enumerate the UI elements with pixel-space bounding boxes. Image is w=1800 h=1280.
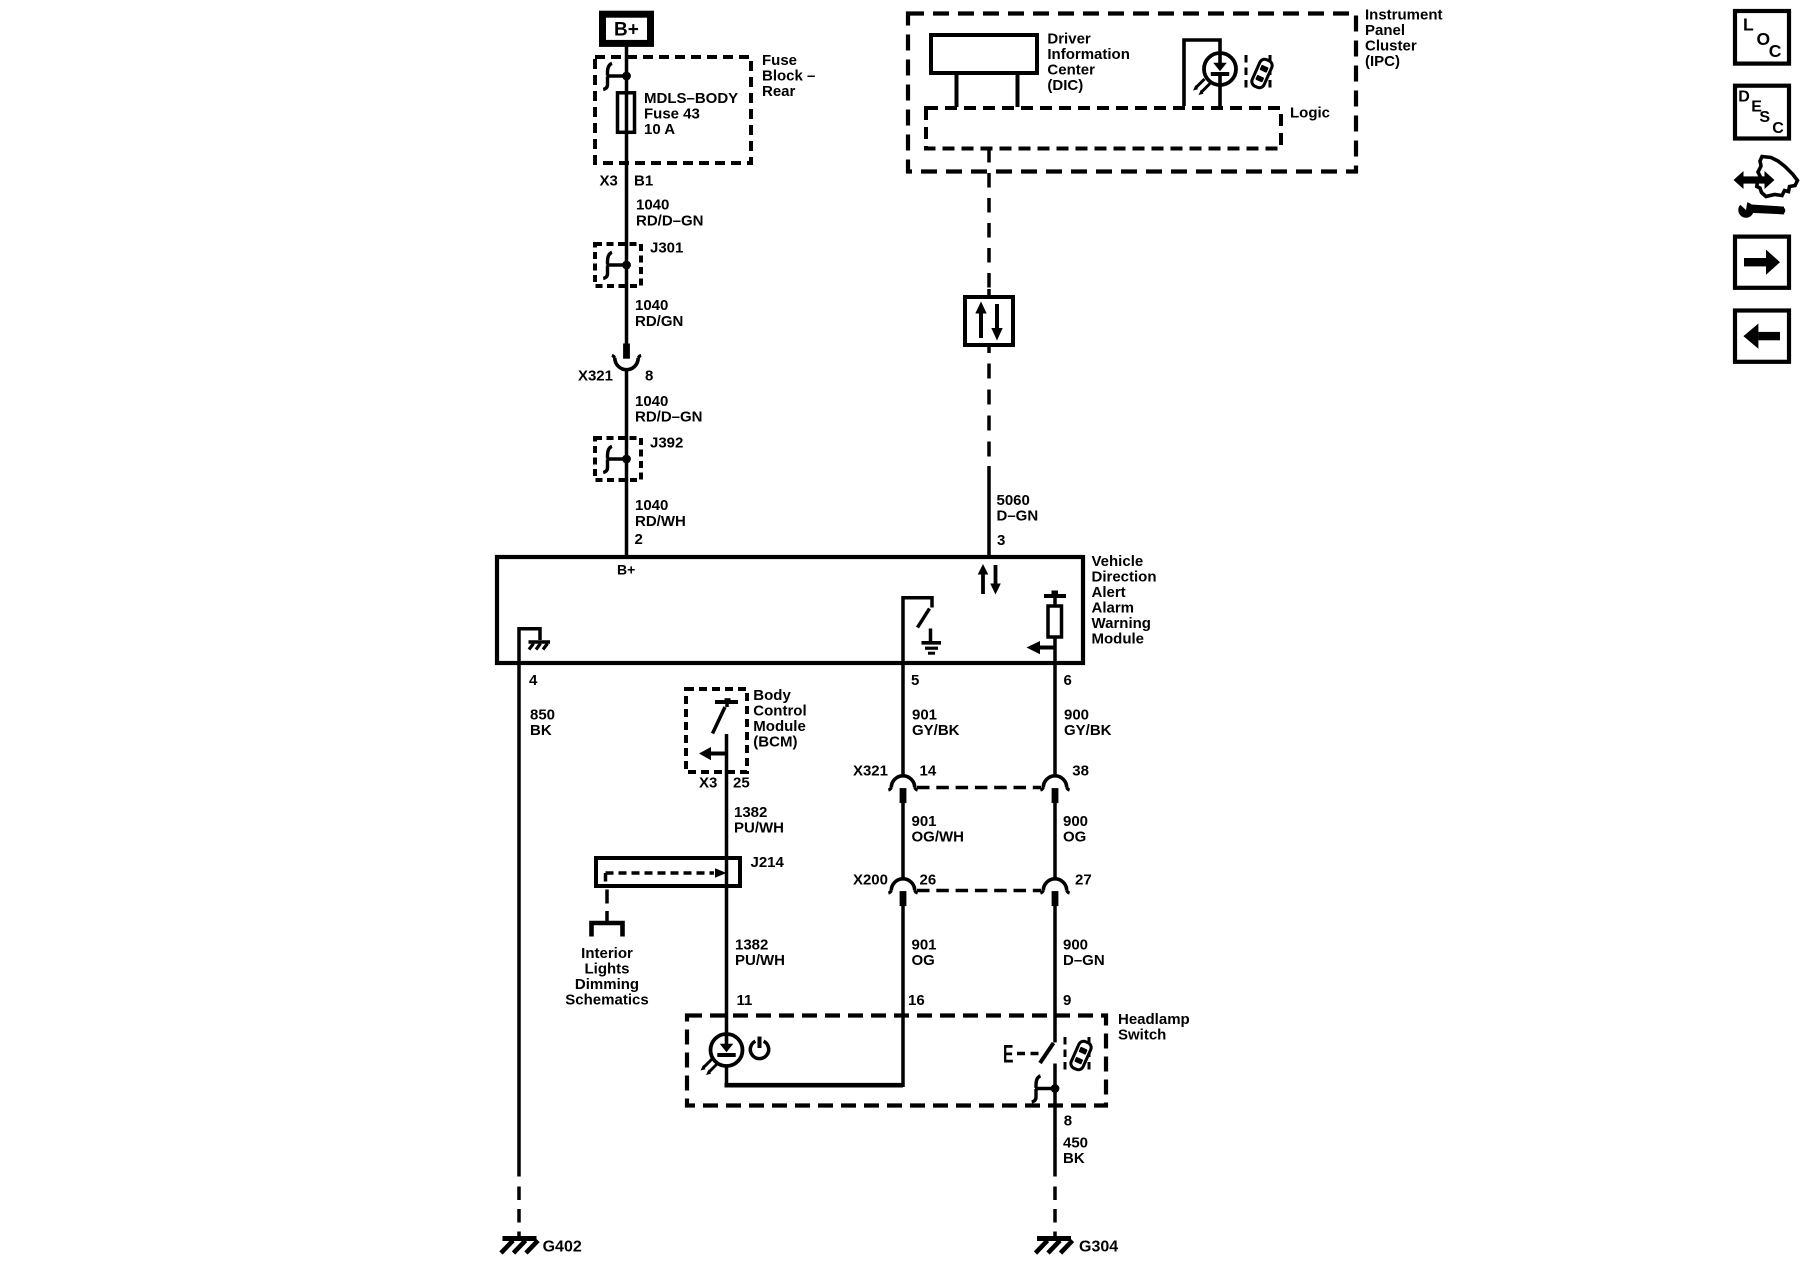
- svg-text:RD/D–GN: RD/D–GN: [635, 409, 703, 426]
- svg-text:X200: X200: [853, 872, 888, 889]
- svg-text:38: 38: [1072, 763, 1089, 780]
- svg-text:Switch: Switch: [1118, 1026, 1166, 1043]
- svg-text:1382: 1382: [734, 804, 767, 821]
- svg-text:C: C: [1772, 120, 1784, 137]
- svg-text:25: 25: [733, 775, 750, 792]
- svg-text:900: 900: [1063, 937, 1088, 954]
- svg-text:GY/BK: GY/BK: [1064, 722, 1112, 739]
- svg-text:J392: J392: [650, 435, 683, 452]
- svg-text:Module: Module: [753, 718, 806, 735]
- svg-text:OG: OG: [912, 952, 935, 969]
- svg-text:X321: X321: [578, 368, 613, 385]
- svg-text:C: C: [1769, 41, 1782, 61]
- svg-text:900: 900: [1064, 707, 1089, 724]
- svg-text:Rear: Rear: [762, 83, 796, 100]
- svg-text:MDLS–BODY: MDLS–BODY: [644, 90, 738, 107]
- svg-text:BK: BK: [1063, 1150, 1085, 1167]
- svg-text:16: 16: [908, 992, 925, 1009]
- svg-text:Interior: Interior: [581, 945, 633, 962]
- svg-text:Lights: Lights: [585, 960, 630, 977]
- svg-text:RD/WH: RD/WH: [635, 513, 686, 530]
- svg-text:E: E: [1003, 1041, 1014, 1069]
- svg-text:Instrument: Instrument: [1365, 7, 1443, 24]
- svg-text:RD/D–GN: RD/D–GN: [636, 212, 704, 229]
- svg-text:Control: Control: [753, 703, 806, 720]
- svg-text:850: 850: [530, 707, 555, 724]
- svg-text:BK: BK: [530, 722, 552, 739]
- svg-text:Vehicle: Vehicle: [1092, 553, 1144, 570]
- svg-text:Dimming: Dimming: [575, 976, 639, 993]
- svg-text:Panel: Panel: [1365, 22, 1405, 39]
- svg-text:Information: Information: [1047, 46, 1130, 63]
- svg-text:GY/BK: GY/BK: [912, 722, 960, 739]
- svg-text:Alert: Alert: [1092, 584, 1126, 601]
- svg-text:G304: G304: [1079, 1239, 1118, 1256]
- svg-text:9: 9: [1063, 992, 1071, 1009]
- svg-text:Fuse 43: Fuse 43: [644, 106, 700, 123]
- svg-text:27: 27: [1075, 872, 1092, 889]
- svg-text:OG: OG: [1063, 829, 1086, 846]
- svg-text:26: 26: [920, 872, 937, 889]
- svg-text:14: 14: [920, 763, 937, 780]
- svg-text:X321: X321: [853, 763, 888, 780]
- svg-text:10 A: 10 A: [644, 121, 675, 138]
- svg-text:D–GN: D–GN: [997, 507, 1039, 524]
- svg-text:Driver: Driver: [1047, 31, 1091, 48]
- svg-text:8: 8: [645, 368, 653, 385]
- svg-text:Headlamp: Headlamp: [1118, 1011, 1190, 1028]
- svg-text:Cluster: Cluster: [1365, 38, 1417, 55]
- svg-text:RD/GN: RD/GN: [635, 313, 683, 330]
- svg-text:Body: Body: [753, 687, 791, 704]
- svg-text:2: 2: [635, 531, 643, 548]
- svg-text:Block –: Block –: [762, 67, 815, 84]
- svg-text:6: 6: [1064, 672, 1072, 689]
- svg-text:3: 3: [997, 532, 1005, 549]
- svg-text:1040: 1040: [636, 197, 669, 214]
- svg-text:5060: 5060: [997, 492, 1030, 509]
- svg-text:J301: J301: [650, 240, 683, 257]
- svg-text:Logic: Logic: [1290, 105, 1330, 122]
- svg-text:D: D: [1738, 88, 1750, 105]
- svg-text:1040: 1040: [635, 497, 668, 514]
- svg-text:PU/WH: PU/WH: [734, 820, 784, 837]
- svg-text:450: 450: [1063, 1135, 1088, 1152]
- svg-text:D–GN: D–GN: [1063, 952, 1105, 969]
- svg-text:Warning: Warning: [1092, 615, 1151, 632]
- svg-text:Schematics: Schematics: [565, 991, 648, 1008]
- svg-text:X3: X3: [699, 775, 717, 792]
- svg-text:901: 901: [912, 707, 937, 724]
- svg-text:B+: B+: [614, 20, 639, 41]
- svg-text:(BCM): (BCM): [753, 734, 797, 751]
- svg-text:8: 8: [1064, 1113, 1072, 1130]
- svg-text:B1: B1: [634, 173, 653, 190]
- svg-text:Direction: Direction: [1092, 569, 1157, 586]
- svg-text:Module: Module: [1092, 631, 1145, 648]
- svg-text:11: 11: [737, 992, 753, 1009]
- svg-text:Alarm: Alarm: [1092, 600, 1135, 617]
- svg-text:1382: 1382: [735, 937, 768, 954]
- svg-text:Center: Center: [1047, 62, 1095, 79]
- svg-text:S: S: [1759, 109, 1770, 126]
- svg-text:901: 901: [912, 813, 937, 830]
- svg-text:B+: B+: [617, 562, 635, 578]
- svg-text:4: 4: [529, 672, 538, 689]
- svg-text:Fuse: Fuse: [762, 52, 797, 69]
- svg-text:X3: X3: [600, 173, 618, 190]
- svg-text:900: 900: [1063, 813, 1088, 830]
- svg-text:G402: G402: [543, 1239, 582, 1256]
- svg-text:(IPC): (IPC): [1365, 53, 1400, 70]
- svg-text:1040: 1040: [635, 297, 668, 314]
- svg-text:L: L: [1743, 14, 1754, 34]
- svg-text:PU/WH: PU/WH: [735, 952, 785, 969]
- svg-text:5: 5: [911, 672, 919, 689]
- svg-text:OG/WH: OG/WH: [912, 829, 965, 846]
- svg-text:(DIC): (DIC): [1047, 77, 1083, 94]
- svg-text:1040: 1040: [635, 393, 668, 410]
- svg-text:J214: J214: [751, 854, 785, 871]
- svg-text:901: 901: [912, 937, 937, 954]
